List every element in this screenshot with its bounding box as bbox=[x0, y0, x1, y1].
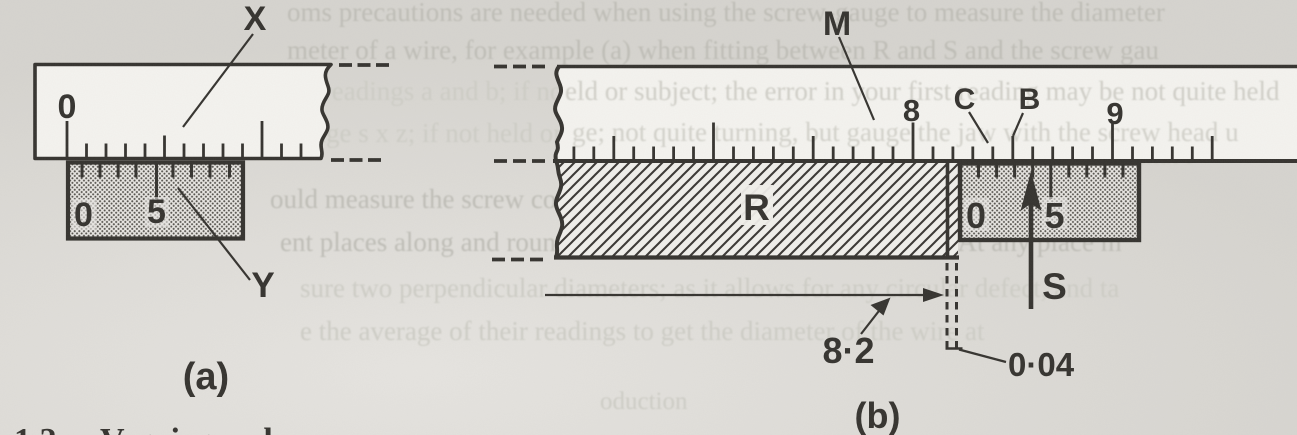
vernier (a) graduation ticks bbox=[82, 164, 230, 199]
label Y with leader line to vernier (a) bbox=[178, 188, 250, 280]
main scale ruler (b) body bbox=[555, 67, 1297, 162]
bleed-through text from reverse page bbox=[270, 0, 1193, 415]
section heading 1.2 Vernier scale (clipped at page bottom) bbox=[14, 422, 288, 435]
(b) ruler top edge bbox=[557, 65, 1297, 69]
dashed projection line at 8.2 graduation bbox=[946, 263, 949, 350]
svg-text:1.2: 1.2 bbox=[14, 422, 57, 435]
arrow S pointing to coincident graduation bbox=[1021, 171, 1042, 309]
svg-text:B: B bbox=[1019, 83, 1041, 116]
vernier (b) graduation ticks bbox=[979, 165, 1124, 199]
vernier slider (a) body bbox=[68, 163, 243, 239]
svg-text:(b): (b) bbox=[855, 395, 901, 435]
label 0 on vernier (b) bbox=[964, 198, 989, 231]
svg-text:(a): (a) bbox=[183, 356, 229, 398]
dashed continuation of (a) top edge bbox=[339, 63, 390, 67]
label 0 on vernier (a) bbox=[72, 199, 96, 230]
vernier slider (b) body bbox=[960, 164, 1139, 241]
svg-text:oduction: oduction bbox=[600, 388, 688, 415]
svg-text:Y: Y bbox=[251, 266, 274, 305]
svg-text:meter of a wire, for example (: meter of a wire, for example (a) when fi… bbox=[287, 35, 1159, 65]
svg-text:5: 5 bbox=[147, 193, 166, 231]
dashed continuation of (a) bottom edge bbox=[331, 158, 381, 162]
svg-text:9: 9 bbox=[1106, 96, 1123, 131]
svg-text:sure two perpendicular diamete: sure two perpendicular diameters; as it … bbox=[300, 273, 1119, 303]
main scale ruler (a) body bbox=[35, 65, 331, 159]
svg-text:0·04: 0·04 bbox=[1008, 346, 1075, 383]
dashed continuation of (b) bottom edge bbox=[494, 159, 547, 163]
rod R right end face bbox=[946, 163, 950, 256]
svg-text:C: C bbox=[954, 83, 976, 116]
label 5 on vernier (a) bbox=[145, 197, 169, 227]
svg-text:R: R bbox=[743, 187, 770, 228]
value label 0.04 with leader bbox=[959, 346, 1075, 383]
main scale (b) graduation ticks bbox=[574, 123, 1212, 161]
svg-text:X: X bbox=[244, 0, 267, 38]
value label 8.2 with leader arrow bbox=[822, 298, 890, 372]
(b) ruler bottom edge bbox=[553, 159, 1297, 163]
svg-text:M: M bbox=[823, 5, 851, 43]
svg-text:Vernier scale: Vernier scale bbox=[100, 422, 288, 435]
svg-text:8·2: 8·2 bbox=[822, 330, 874, 371]
label 5 on vernier (b) bbox=[1042, 197, 1067, 229]
faint show-through text inside ruler (b) bbox=[565, 76, 1280, 147]
svg-text:0: 0 bbox=[966, 195, 986, 236]
dashed continuation of (b) top edge bbox=[494, 65, 547, 69]
label R on rod bbox=[741, 185, 773, 225]
svg-text:5: 5 bbox=[1044, 195, 1064, 236]
main scale (a) graduation ticks bbox=[67, 121, 301, 158]
dashed projection line at vernier zero bbox=[955, 263, 958, 353]
gap tick between projections bbox=[946, 347, 963, 350]
rod R bottom edge bbox=[554, 255, 959, 259]
svg-text:0: 0 bbox=[58, 88, 77, 126]
torn wavy left edge of ruler (b) and rod R bbox=[555, 67, 562, 258]
rod R being measured (hatched) bbox=[556, 163, 958, 257]
svg-text:e the average of their reading: e the average of their readings to get t… bbox=[300, 316, 985, 346]
dimension arrow for 8.2 reading bbox=[545, 288, 944, 302]
svg-text:0: 0 bbox=[74, 196, 93, 234]
svg-text:eld or subject; the error in y: eld or subject; the error in your first … bbox=[565, 76, 1280, 106]
svg-text:oms precautions are needed whe: oms precautions are needed when using th… bbox=[287, 0, 1165, 27]
svg-text:S: S bbox=[1042, 266, 1067, 307]
svg-text:8: 8 bbox=[903, 93, 920, 128]
dashed continuation of rod bottom edge bbox=[492, 258, 545, 262]
